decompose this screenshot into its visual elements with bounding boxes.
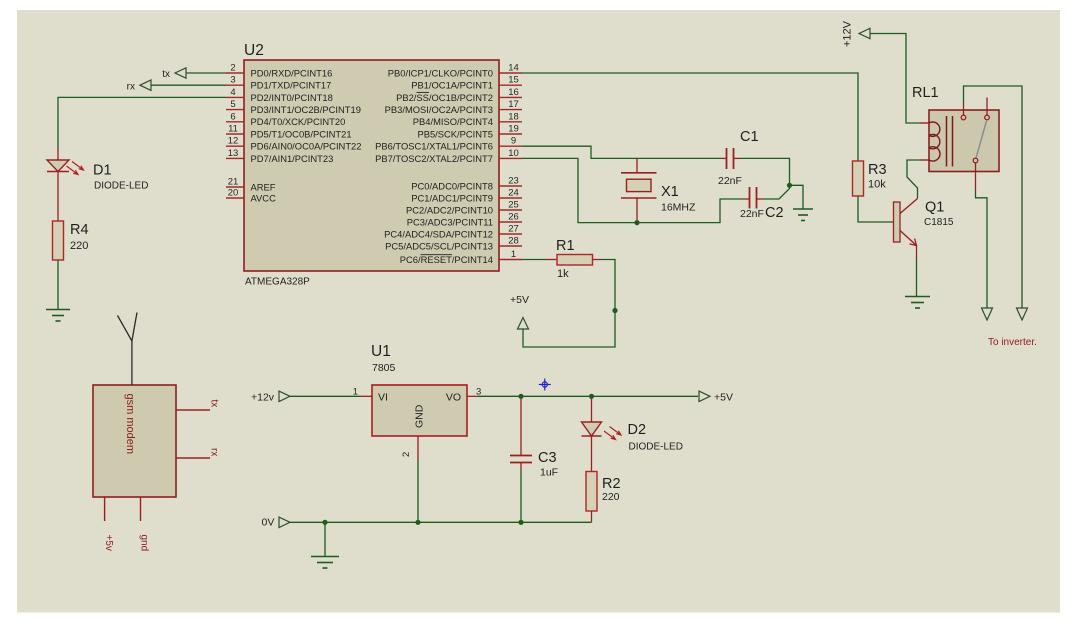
svg-text:PB2/SS/OC1B/PCINT2: PB2/SS/OC1B/PCINT2 xyxy=(396,92,493,103)
svg-text:PB7/TOSC2/XTAL2/PCINT7: PB7/TOSC2/XTAL2/PCINT7 xyxy=(375,153,493,164)
svg-text:gnd: gnd xyxy=(139,535,150,552)
svg-text:To inverter.: To inverter. xyxy=(988,337,1037,348)
svg-text:PD2/INT0/PCINT18: PD2/INT0/PCINT18 xyxy=(251,92,333,103)
wire R4 to ground xyxy=(57,260,59,309)
svg-text:X1: X1 xyxy=(661,184,679,200)
relay RL1 xyxy=(912,85,999,172)
svg-text:10: 10 xyxy=(508,148,519,159)
svg-text:21: 21 xyxy=(228,177,239,188)
svg-text:PB4/MISO/PCINT4: PB4/MISO/PCINT4 xyxy=(413,116,493,127)
node GND pin junction xyxy=(415,520,420,525)
svg-text:2: 2 xyxy=(401,452,412,457)
svg-text:+5V: +5V xyxy=(714,392,733,404)
svg-text:PB3/MOSI/OC2A/PCINT3: PB3/MOSI/OC2A/PCINT3 xyxy=(385,104,493,115)
svg-text:3: 3 xyxy=(230,75,235,86)
svg-text:D1: D1 xyxy=(93,163,112,179)
node C3 bottom junction xyxy=(518,520,523,525)
svg-text:16: 16 xyxy=(508,87,519,98)
svg-text:DIODE-LED: DIODE-LED xyxy=(94,181,148,192)
svg-text:PB5/SCK/PCINT5: PB5/SCK/PCINT5 xyxy=(417,128,493,139)
wire pin2 to tx xyxy=(186,72,226,74)
svg-text:15: 15 xyxy=(508,75,519,86)
svg-text:23: 23 xyxy=(508,176,519,187)
svg-text:+12v: +12v xyxy=(251,392,275,404)
svg-text:4: 4 xyxy=(230,87,235,98)
svg-text:DIODE-LED: DIODE-LED xyxy=(629,442,683,453)
node D2 top junction xyxy=(589,394,594,399)
svg-text:VI: VI xyxy=(378,392,388,404)
svg-text:R2: R2 xyxy=(602,476,621,492)
wire pin4 to D1 xyxy=(58,97,226,148)
node C3 top junction xyxy=(518,394,523,399)
node crystal rail junction xyxy=(634,220,639,225)
ground (0V rail) xyxy=(311,557,339,569)
terminal tx xyxy=(162,68,186,80)
wire Q1 collector to relay coil xyxy=(907,160,920,199)
wire junction to ground xyxy=(790,185,804,208)
wire 0V rail xyxy=(290,521,592,523)
diode-LED D1 xyxy=(47,160,148,192)
svg-text:2: 2 xyxy=(230,63,235,74)
wire VO to +5V rail xyxy=(467,395,477,397)
wire +12V to relay coil top xyxy=(870,34,920,124)
wire R2 to 0V rail xyxy=(591,511,593,522)
svg-text:PB1/OC1A/PCINT1: PB1/OC1A/PCINT1 xyxy=(411,80,493,91)
svg-text:10k: 10k xyxy=(868,179,886,191)
svg-text:26: 26 xyxy=(508,212,519,223)
relay contact NO xyxy=(961,115,966,120)
svg-text:1: 1 xyxy=(511,249,516,260)
svg-text:11: 11 xyxy=(228,124,238,135)
svg-text:ATMEGA328P: ATMEGA328P xyxy=(245,277,310,288)
resistor R4 xyxy=(53,221,89,260)
svg-text:tx: tx xyxy=(209,400,220,408)
diode-LED D2 xyxy=(582,399,683,453)
power +5V terminal (reset pull-up) xyxy=(510,294,529,329)
U2 left pin stubs PD0-PD7 xyxy=(226,73,244,198)
resistor R2 xyxy=(586,472,621,512)
crystal X1 xyxy=(621,158,696,222)
wire C2 to ground junction xyxy=(763,185,790,199)
svg-text:gsm modem: gsm modem xyxy=(124,394,136,455)
U2 right pin stubs PB0-PB7, PC0-PC6 xyxy=(499,73,522,260)
gsm modem block xyxy=(93,385,176,497)
transistor Q1 xyxy=(894,199,954,259)
wire C1 to ground junction xyxy=(740,158,790,185)
svg-text:VO: VO xyxy=(446,392,461,404)
wire R3 to Q1 base xyxy=(858,196,894,222)
svg-text:7805: 7805 xyxy=(372,362,396,374)
svg-text:220: 220 xyxy=(602,491,620,503)
svg-text:PD0/RXD/PCINT16: PD0/RXD/PCINT16 xyxy=(251,67,333,78)
gsm +5v stub xyxy=(103,497,114,551)
svg-text:PD1/TXD/PCINT17: PD1/TXD/PCINT17 xyxy=(251,80,332,91)
svg-text:18: 18 xyxy=(508,111,519,122)
MCU U2 body xyxy=(244,42,499,288)
svg-text:PC4/ADC4/SDA/PCINT12: PC4/ADC4/SDA/PCINT12 xyxy=(384,228,493,239)
svg-text:rx: rx xyxy=(127,81,135,92)
relay switch blade xyxy=(976,121,987,158)
svg-text:22nF: 22nF xyxy=(740,208,764,220)
wire relay common down xyxy=(976,190,988,308)
svg-text:C1815: C1815 xyxy=(924,217,954,228)
relay contact NC stub xyxy=(985,115,990,120)
svg-text:PC3/ADC3/PCINT11: PC3/ADC3/PCINT11 xyxy=(407,216,493,227)
relay coil pins xyxy=(920,123,929,160)
svg-text:0V: 0V xyxy=(262,517,275,529)
svg-text:20: 20 xyxy=(228,188,239,199)
wire pin14 to R3 xyxy=(522,73,858,161)
wire D2 to R2 xyxy=(591,436,593,472)
wire R1 to +5V loop xyxy=(593,259,602,261)
output arrow right (to inverter) xyxy=(1017,308,1028,320)
resistor R3 xyxy=(853,161,887,196)
capacitor C2 xyxy=(740,187,784,221)
overline on SS xyxy=(417,91,430,93)
node XTAL ground junction xyxy=(787,183,792,188)
svg-text:PC0/ADC0/PCINT8: PC0/ADC0/PCINT8 xyxy=(411,180,493,191)
relay core bars xyxy=(947,116,953,167)
gsm tx stub xyxy=(176,400,220,411)
svg-text:PD3/INT1/OC2B/PCINT19: PD3/INT1/OC2B/PCINT19 xyxy=(251,104,361,115)
svg-text:1k: 1k xyxy=(557,268,569,280)
svg-text:13: 13 xyxy=(228,148,239,159)
gsm gnd stub xyxy=(139,497,150,551)
svg-text:PC2/ADC2/PCINT10: PC2/ADC2/PCINT10 xyxy=(406,204,493,215)
svg-text:C3: C3 xyxy=(538,450,557,466)
svg-text:R1: R1 xyxy=(556,238,575,254)
svg-text:C1: C1 xyxy=(740,129,759,145)
svg-text:6: 6 xyxy=(230,111,235,122)
svg-text:14: 14 xyxy=(508,63,519,74)
svg-text:R3: R3 xyxy=(868,162,887,178)
svg-text:GND: GND xyxy=(414,404,426,428)
svg-text:24: 24 xyxy=(508,188,519,199)
svg-text:PB6/TOSC1/XTAL1/PCINT6: PB6/TOSC1/XTAL1/PCINT6 xyxy=(375,141,493,152)
wire relay NO to right rail xyxy=(964,86,1023,308)
gsm rx stub xyxy=(176,448,220,458)
relay common contact xyxy=(973,158,978,163)
svg-text:rx: rx xyxy=(209,448,220,456)
wire GND pin to 0V rail xyxy=(417,436,419,461)
terminal rx xyxy=(127,80,151,92)
node 0V ground junction xyxy=(322,520,327,525)
resistor R1 xyxy=(556,238,593,280)
node R1/+5V junction xyxy=(612,308,617,313)
svg-text:28: 28 xyxy=(508,236,519,247)
svg-text:PD4/T0/XCK/PCINT20: PD4/T0/XCK/PCINT20 xyxy=(251,116,346,127)
U2 right pin numbers xyxy=(508,63,519,261)
svg-text:+12V: +12V xyxy=(842,20,854,47)
overline on RESET xyxy=(421,254,453,256)
ground (below Q1) xyxy=(905,297,930,309)
svg-text:AREF: AREF xyxy=(251,181,276,192)
terminal +12v input xyxy=(251,391,290,403)
svg-text:U2: U2 xyxy=(244,42,264,59)
svg-text:PD7/AIN1/PCINT23: PD7/AIN1/PCINT23 xyxy=(251,153,334,164)
U2 right pin names xyxy=(375,67,493,265)
output arrow left (to inverter) xyxy=(982,308,993,320)
wire pin9 (XTAL1) to C1 xyxy=(522,146,721,158)
svg-text:22nF: 22nF xyxy=(718,175,742,187)
terminal 0V input xyxy=(262,517,291,529)
U2 left pin numbers xyxy=(228,63,239,199)
wire +12v to VI xyxy=(290,395,360,397)
svg-text:U1: U1 xyxy=(371,343,391,360)
U2 left pin names xyxy=(251,67,362,203)
svg-text:R4: R4 xyxy=(70,222,89,238)
ground (crystal) xyxy=(793,209,813,221)
svg-text:17: 17 xyxy=(508,99,519,110)
terminal +5V output xyxy=(699,391,733,403)
power +12V terminal xyxy=(842,20,871,47)
regulator U1 7805 xyxy=(371,343,467,436)
svg-text:PB0/ICP1/CLKO/PCINT0: PB0/ICP1/CLKO/PCINT0 xyxy=(388,67,493,78)
capacitor C3 xyxy=(510,399,558,523)
svg-text:PC6/RESET/PCINT14: PC6/RESET/PCINT14 xyxy=(400,254,493,265)
wire D1 to R4 xyxy=(57,172,59,222)
svg-text:25: 25 xyxy=(508,200,519,211)
svg-text:PC1/ADC1/PCINT9: PC1/ADC1/PCINT9 xyxy=(411,192,493,203)
svg-text:1uF: 1uF xyxy=(540,467,558,479)
wire 0V to ground xyxy=(324,522,326,556)
svg-text:D2: D2 xyxy=(628,422,647,438)
svg-text:12: 12 xyxy=(228,136,239,147)
svg-text:tx: tx xyxy=(162,69,170,80)
svg-text:PD6/AIN0/OC0A/PCINT22: PD6/AIN0/OC0A/PCINT22 xyxy=(251,141,362,152)
wire pin1 (RESET) to R1 xyxy=(522,259,546,261)
svg-text:220: 220 xyxy=(70,240,88,252)
svg-text:16MHZ: 16MHZ xyxy=(661,202,696,214)
svg-text:+5v: +5v xyxy=(103,535,114,551)
svg-text:AVCC: AVCC xyxy=(251,192,277,203)
relay coil arcs xyxy=(929,122,940,161)
wire Q1 emitter to ground xyxy=(916,258,918,296)
svg-text:C2: C2 xyxy=(765,205,784,221)
svg-text:PC5/ADC5/SCL/PCINT13: PC5/ADC5/SCL/PCINT13 xyxy=(385,240,493,251)
svg-text:Q1: Q1 xyxy=(925,200,944,216)
capacitor C1 xyxy=(718,129,759,187)
svg-text:+5V: +5V xyxy=(510,294,529,306)
wire pin3 to rx xyxy=(151,84,226,86)
ground (below R4) xyxy=(46,310,70,322)
svg-text:27: 27 xyxy=(508,224,519,235)
wire pin10 (XTAL2) to crystal rail xyxy=(522,158,743,222)
svg-text:RL1: RL1 xyxy=(912,85,939,101)
svg-text:5: 5 xyxy=(230,99,235,110)
gsm antenna xyxy=(118,313,138,386)
blue origin marker xyxy=(539,379,551,391)
svg-text:9: 9 xyxy=(511,136,516,147)
svg-text:PD5/T1/OC0B/PCINT21: PD5/T1/OC0B/PCINT21 xyxy=(251,128,352,139)
svg-text:19: 19 xyxy=(508,124,519,135)
